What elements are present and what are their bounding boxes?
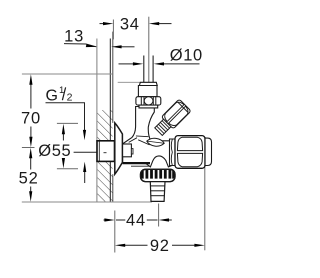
svg-text:92: 92 (150, 237, 170, 255)
svg-text:52: 52 (19, 170, 39, 188)
handle knob with collar (153, 99, 191, 137)
washer under nut (139, 105, 158, 108)
knob body (161, 99, 191, 129)
svg-text:Ø10: Ø10 (170, 47, 203, 65)
wall hatching lower segment (97, 161, 112, 201)
nut end cap (205, 138, 212, 165)
wall inner line (109, 39, 111, 141)
wall face line (112, 32, 114, 123)
fitting top extension line (118, 81, 140, 83)
supply pipe (144, 56, 153, 83)
neck block (123, 144, 132, 157)
flange bell (115, 123, 123, 174)
right compression nut (175, 136, 205, 169)
compression fitting collar ring (139, 82, 157, 85)
wall bottom line (22, 201, 152, 203)
wall hatching upper segment (97, 110, 112, 141)
right compression nut collar (170, 139, 176, 166)
body interior: lens boss (146, 137, 164, 147)
valve body (123, 107, 172, 167)
nipple through wall (97, 141, 115, 162)
collar (ribbed stem) (155, 119, 171, 135)
body interior: flare lines (129, 138, 137, 143)
svg-text:44: 44 (126, 211, 146, 229)
svg-text:34: 34 (120, 16, 140, 34)
svg-text:G: G (46, 87, 58, 104)
svg-text:70: 70 (21, 109, 41, 127)
sleeve (138, 86, 157, 97)
svg-text:2: 2 (67, 91, 73, 103)
hose barb (150, 182, 165, 202)
wall left line (96, 39, 98, 202)
compression nut top (136, 97, 161, 105)
svg-text:13: 13 (64, 28, 84, 46)
svg-text:Ø55: Ø55 (38, 142, 71, 160)
body bottom thick edge (123, 162, 150, 164)
